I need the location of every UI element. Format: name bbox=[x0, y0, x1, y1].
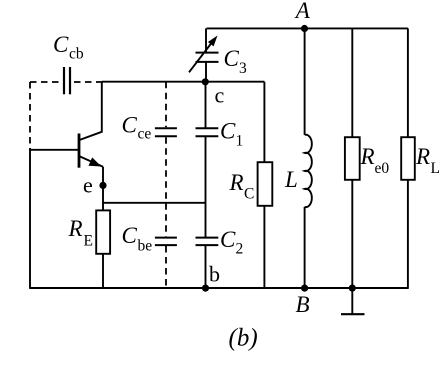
svg-text:L: L bbox=[431, 160, 440, 177]
svg-text:R: R bbox=[360, 144, 375, 169]
svg-text:b: b bbox=[209, 262, 220, 287]
node A bbox=[294, 0, 311, 32]
wire: RE to bottom rail bbox=[102, 254, 104, 289]
svg-text:B: B bbox=[296, 292, 310, 317]
resistor RC bbox=[229, 82, 273, 289]
wire: middle vertical C1 to C2 bbox=[205, 136, 207, 237]
svg-text:C: C bbox=[220, 227, 236, 252]
wire: emitter vertical bbox=[102, 167, 104, 211]
resistor Re0 bbox=[345, 28, 389, 289]
svg-text:R: R bbox=[415, 144, 430, 169]
svg-text:L: L bbox=[284, 167, 298, 192]
capacitor C1 bbox=[196, 82, 244, 150]
wire: collector rail (c rail) bbox=[102, 81, 265, 83]
capacitor Cce (dashed, internal) bbox=[122, 82, 177, 143]
svg-text:C: C bbox=[53, 32, 69, 57]
svg-text:C: C bbox=[122, 223, 138, 248]
node c bbox=[202, 78, 225, 107]
inductor L bbox=[284, 28, 312, 289]
svg-text:ce: ce bbox=[138, 126, 152, 143]
wire: bottom rail bbox=[30, 287, 408, 289]
svg-text:(b): (b) bbox=[229, 325, 258, 352]
wire: left vertical solid segment bbox=[29, 148, 31, 289]
svg-text:A: A bbox=[294, 0, 311, 23]
svg-text:c: c bbox=[215, 83, 225, 108]
node B bbox=[296, 285, 310, 318]
svg-text:C: C bbox=[122, 113, 138, 138]
svg-text:R: R bbox=[68, 216, 83, 241]
svg-text:E: E bbox=[84, 233, 93, 250]
resistor RE bbox=[68, 210, 111, 253]
ground bbox=[341, 285, 365, 315]
svg-text:3: 3 bbox=[239, 60, 247, 77]
capacitor C2 bbox=[196, 227, 244, 289]
node e bbox=[83, 172, 107, 197]
svg-text:cb: cb bbox=[69, 46, 84, 63]
capacitor C3 (variable) bbox=[189, 28, 247, 81]
svg-text:C: C bbox=[244, 185, 254, 202]
capacitor Ccb (dashed, internal) bbox=[30, 32, 102, 94]
svg-text:R: R bbox=[229, 170, 244, 195]
svg-text:C: C bbox=[220, 119, 236, 144]
svg-text:2: 2 bbox=[236, 241, 244, 258]
node b bbox=[202, 262, 220, 292]
svg-text:be: be bbox=[138, 238, 153, 255]
svg-text:1: 1 bbox=[236, 133, 244, 150]
svg-text:C: C bbox=[224, 46, 240, 71]
wire: base wire bbox=[30, 149, 79, 151]
wire: dashed vertical between Cce and Cbe bbox=[165, 137, 167, 236]
svg-text:e: e bbox=[83, 172, 93, 197]
wire: e junction horizontal bbox=[103, 202, 206, 204]
transistor Q (NPN) bbox=[79, 82, 103, 168]
wire: top rail A bbox=[207, 27, 408, 29]
resistor RL bbox=[401, 28, 440, 289]
svg-text:e0: e0 bbox=[375, 160, 390, 177]
wire: left vertical dashed segment bbox=[29, 82, 31, 150]
capacitor Cbe (dashed, internal) bbox=[122, 223, 177, 289]
